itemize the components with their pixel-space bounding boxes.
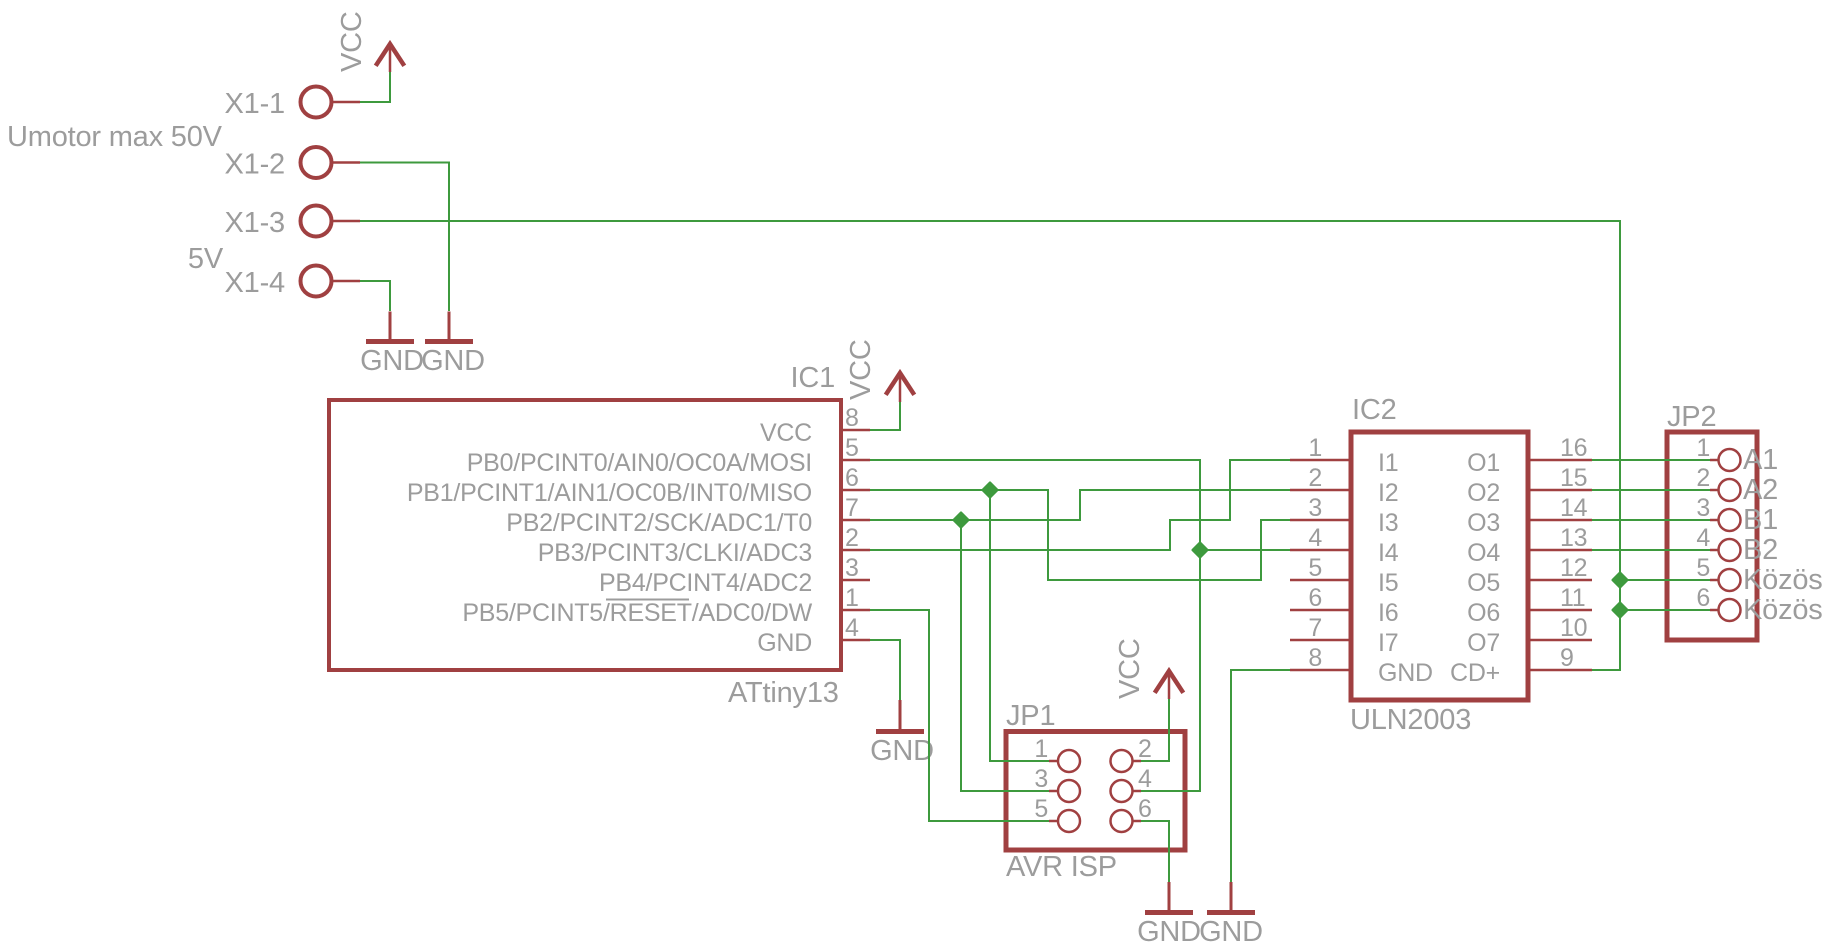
- wire X1-1 to VCC: [360, 72, 390, 102]
- JP2 pin 4 pad: [1719, 539, 1741, 561]
- svg-text:PB2/PCINT2/SCK/ADC1/T0: PB2/PCINT2/SCK/ADC1/T0: [506, 509, 812, 537]
- svg-text:1: 1: [1696, 434, 1710, 462]
- IC2 left pin numbers: [1308, 434, 1322, 672]
- svg-text:4: 4: [1696, 524, 1710, 552]
- wire net PB3 to I1: [870, 460, 1290, 550]
- svg-text:O2: O2: [1467, 479, 1500, 507]
- wire net MISO PB1 to I3: [870, 490, 1290, 580]
- wire IC1 GND pin4 to GND symbol: [870, 640, 900, 700]
- junction MOSI at I4 branch: [1193, 543, 1207, 557]
- svg-text:IC1: IC1: [790, 362, 835, 394]
- svg-text:O3: O3: [1467, 509, 1500, 537]
- IC2 ULN2003 body: [1351, 432, 1528, 700]
- JP2 pin 5 pad: [1719, 569, 1741, 591]
- svg-text:13: 13: [1560, 524, 1587, 552]
- svg-text:PB1/PCINT1/AIN1/OC0B/INT0/MISO: PB1/PCINT1/AIN1/OC0B/INT0/MISO: [407, 479, 812, 507]
- svg-text:PB3/PCINT3/CLKI/ADC3: PB3/PCINT3/CLKI/ADC3: [538, 539, 812, 567]
- svg-text:6: 6: [1696, 584, 1710, 612]
- wire branch MISO to JP1 pin1: [990, 490, 1049, 761]
- wire IC2 GND pin8 to GND symbol: [1231, 670, 1290, 882]
- svg-text:1: 1: [845, 584, 859, 612]
- svg-text:11: 11: [1560, 584, 1585, 612]
- svg-text:7: 7: [845, 494, 859, 522]
- supply VCC symbol at IC1 pin8: [886, 373, 915, 402]
- svg-text:4: 4: [1308, 524, 1322, 552]
- svg-text:4: 4: [845, 614, 859, 642]
- JP2 pin 6 pad: [1719, 599, 1741, 621]
- JP1 pin 3 pad: [1058, 780, 1080, 802]
- svg-text:7: 7: [1308, 614, 1322, 642]
- IC1 pin names: [407, 419, 813, 657]
- wire net MOSI PB0 to I4 and JP1 pin4: [870, 460, 1200, 791]
- svg-text:IC2: IC2: [1352, 394, 1397, 426]
- svg-text:A1: A1: [1743, 444, 1778, 476]
- IC2 output pin names: [1450, 449, 1500, 687]
- svg-text:CD+: CD+: [1450, 659, 1500, 687]
- supply VCC symbol at X1-1: [376, 44, 405, 72]
- svg-text:5: 5: [1696, 554, 1710, 582]
- svg-text:6: 6: [1138, 795, 1152, 823]
- JP2 pin name labels: [1743, 444, 1823, 626]
- svg-text:2: 2: [1696, 464, 1710, 492]
- svg-text:O1: O1: [1467, 449, 1500, 477]
- svg-text:10: 10: [1560, 614, 1587, 642]
- svg-text:GND: GND: [1137, 916, 1201, 948]
- svg-text:PB4/PCINT4/ADC2: PB4/PCINT4/ADC2: [599, 569, 812, 597]
- wire X1-3 common net to CD+: [360, 221, 1620, 670]
- svg-text:I2: I2: [1378, 479, 1398, 507]
- wire O4 to JP2 pin4: [1592, 549, 1710, 551]
- svg-text:O6: O6: [1467, 599, 1500, 627]
- svg-text:VCC: VCC: [336, 11, 368, 72]
- JP1 pin 1 pad: [1058, 750, 1080, 772]
- svg-text:14: 14: [1560, 494, 1588, 522]
- svg-text:PB0/PCINT0/AIN0/OC0A/MOSI: PB0/PCINT0/AIN0/OC0A/MOSI: [467, 449, 812, 477]
- svg-text:2: 2: [1138, 735, 1152, 763]
- junction common at JP2 pin5: [1613, 573, 1627, 587]
- svg-text:A2: A2: [1743, 474, 1778, 506]
- IC2 right pin numbers: [1560, 434, 1588, 672]
- connector X1-3 pad: [301, 206, 332, 237]
- wire net RESET PB5 to JP1 pin5: [870, 610, 1049, 821]
- IC1 RESET overline: [606, 599, 689, 601]
- wire X1-4 to GND: [360, 281, 390, 311]
- svg-text:X1-1: X1-1: [225, 88, 285, 120]
- JP2 pin 3 pad: [1719, 509, 1741, 531]
- IC1 ATtiny13 body: [329, 400, 841, 670]
- connector X1-2 pad: [301, 147, 332, 178]
- svg-text:8: 8: [845, 404, 859, 432]
- ground symbol at IC1 pin4: [876, 700, 924, 732]
- svg-text:X1-2: X1-2: [225, 149, 285, 181]
- svg-text:B1: B1: [1743, 504, 1778, 536]
- JP1 pin 5 pad: [1058, 810, 1080, 832]
- wire O2 to JP2 pin2: [1592, 489, 1710, 491]
- svg-text:GND: GND: [1378, 659, 1433, 687]
- junction common at JP2 pin6: [1613, 603, 1627, 617]
- svg-text:Közös: Közös: [1743, 594, 1823, 626]
- svg-text:Közös: Közös: [1743, 564, 1823, 596]
- svg-text:5V: 5V: [188, 243, 224, 275]
- wire IC1 VCC pin8 to VCC symbol: [870, 402, 900, 430]
- supply VCC symbol at JP1 pin2: [1155, 671, 1184, 699]
- wire JP1 pin2 to VCC symbol: [1141, 699, 1169, 761]
- svg-text:I6: I6: [1378, 599, 1398, 627]
- connector X1-1 pad: [301, 87, 332, 118]
- svg-text:16: 16: [1560, 434, 1587, 462]
- svg-text:1: 1: [1308, 434, 1322, 462]
- svg-text:X1-4: X1-4: [225, 267, 286, 299]
- junction SCK at JP1 pin3 branch: [954, 513, 968, 527]
- wire O3 to JP2 pin3: [1592, 519, 1710, 521]
- svg-text:5: 5: [1308, 554, 1322, 582]
- wire branch SCK to JP1 pin3: [961, 520, 1049, 791]
- svg-text:JP1: JP1: [1006, 700, 1055, 732]
- svg-text:ATtiny13: ATtiny13: [728, 677, 839, 709]
- svg-text:O4: O4: [1467, 539, 1500, 567]
- svg-text:I3: I3: [1378, 509, 1398, 537]
- junction MISO at JP1 pin1 branch: [983, 483, 997, 497]
- svg-text:3: 3: [845, 554, 859, 582]
- svg-text:O7: O7: [1467, 629, 1500, 657]
- svg-text:I5: I5: [1378, 569, 1398, 597]
- IC1 pin numbers: [845, 404, 859, 642]
- JP1 pin 4 pad: [1111, 780, 1133, 802]
- wire net SCK PB2 to I2: [870, 490, 1290, 520]
- connector X1-4 pad: [301, 266, 332, 297]
- svg-text:8: 8: [1308, 644, 1322, 672]
- ground symbol at JP1 pin6: [1145, 882, 1193, 913]
- svg-text:5: 5: [1034, 795, 1048, 823]
- svg-text:3: 3: [1034, 765, 1048, 793]
- ground symbol at X1-4: [366, 312, 414, 342]
- svg-text:X1-3: X1-3: [225, 207, 285, 239]
- svg-text:2: 2: [1308, 464, 1322, 492]
- svg-text:Umotor max 50V: Umotor max 50V: [7, 121, 223, 153]
- svg-text:6: 6: [845, 464, 859, 492]
- IC1 pin stubs: [841, 430, 870, 640]
- wire branch common to JP2 pin5: [1620, 579, 1710, 581]
- svg-text:I4: I4: [1378, 539, 1399, 567]
- svg-text:GND: GND: [870, 735, 934, 767]
- svg-text:6: 6: [1308, 584, 1322, 612]
- svg-text:ULN2003: ULN2003: [1350, 704, 1471, 736]
- svg-text:GND: GND: [360, 345, 424, 377]
- wire JP1 pin6 to GND symbol: [1141, 821, 1169, 882]
- JP2 pin 2 pad: [1719, 479, 1741, 501]
- svg-text:PB5/PCINT5/RESET/ADC0/DW: PB5/PCINT5/RESET/ADC0/DW: [462, 599, 812, 627]
- wire branch MOSI to IC2 I4: [1200, 549, 1290, 551]
- svg-text:I7: I7: [1378, 629, 1398, 657]
- svg-text:B2: B2: [1743, 534, 1778, 566]
- svg-text:9: 9: [1560, 644, 1574, 672]
- IC2 right pin stubs: [1528, 460, 1592, 670]
- wire O1 to JP2 pin1: [1592, 459, 1710, 461]
- ground symbol at X1-2: [425, 312, 473, 342]
- svg-text:5: 5: [845, 434, 859, 462]
- IC2 left pin stubs: [1290, 460, 1351, 670]
- JP2 connector body: [1667, 432, 1757, 640]
- wire branch common to JP2 pin6: [1620, 609, 1710, 611]
- JP1 pin 6 pad: [1111, 810, 1133, 832]
- IC2 input pin names: [1378, 449, 1433, 687]
- svg-text:3: 3: [1308, 494, 1322, 522]
- JP1 pin numbers: [1034, 735, 1152, 823]
- svg-text:GND: GND: [421, 345, 485, 377]
- svg-text:AVR ISP: AVR ISP: [1006, 851, 1117, 883]
- svg-text:GND: GND: [1199, 916, 1263, 948]
- ground symbol at IC2 pin8: [1207, 882, 1255, 913]
- svg-text:12: 12: [1560, 554, 1587, 582]
- JP1 pin 2 pad: [1111, 750, 1133, 772]
- svg-text:VCC: VCC: [845, 339, 877, 400]
- svg-text:2: 2: [845, 524, 859, 552]
- JP2 pin 1 pad: [1719, 449, 1741, 471]
- svg-text:15: 15: [1560, 464, 1587, 492]
- wire X1-2 to GND: [360, 163, 449, 312]
- svg-text:O5: O5: [1467, 569, 1500, 597]
- svg-text:VCC: VCC: [1114, 638, 1146, 699]
- svg-text:JP2: JP2: [1667, 401, 1716, 433]
- JP2 pin numbers: [1696, 434, 1710, 612]
- svg-text:GND: GND: [757, 629, 812, 657]
- svg-text:1: 1: [1034, 735, 1048, 763]
- svg-text:4: 4: [1138, 765, 1152, 793]
- svg-text:3: 3: [1696, 494, 1710, 522]
- svg-text:VCC: VCC: [760, 419, 812, 447]
- JP1 AVR ISP body: [1006, 732, 1185, 851]
- svg-text:I1: I1: [1378, 449, 1398, 477]
